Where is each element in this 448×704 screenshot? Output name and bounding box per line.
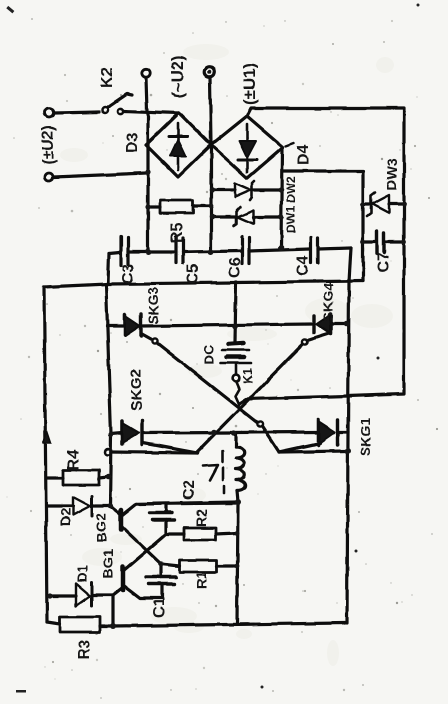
svg-text:SKG2: SKG2: [128, 369, 145, 410]
svg-text:D1: D1: [74, 565, 90, 583]
svg-text:C3: C3: [120, 263, 137, 284]
svg-text:C5: C5: [185, 263, 202, 284]
svg-text:D4: D4: [295, 144, 312, 165]
svg-text:DW3: DW3: [384, 159, 400, 190]
svg-text:C6: C6: [227, 257, 244, 278]
svg-text:DC: DC: [201, 345, 217, 365]
svg-text:C2: C2: [181, 479, 198, 500]
svg-text:K2: K2: [99, 67, 116, 88]
svg-text:SKG4: SKG4: [320, 283, 336, 321]
svg-text:SKG1: SKG1: [357, 418, 373, 456]
svg-text:D2: D2: [57, 508, 73, 526]
svg-text:R4: R4: [65, 449, 82, 470]
svg-text:C4: C4: [295, 255, 312, 276]
svg-text:R2: R2: [193, 509, 209, 527]
svg-text:SKG3: SKG3: [146, 287, 161, 324]
svg-text:R3: R3: [76, 639, 93, 660]
svg-text:K1: K1: [241, 368, 255, 384]
svg-text:(±U1): (±U1): [240, 63, 259, 105]
svg-text:(±U2): (±U2): [40, 125, 57, 165]
svg-text:R5: R5: [169, 222, 186, 243]
svg-text:(~U2): (~U2): [168, 55, 187, 98]
svg-text:DW1 DW2: DW1 DW2: [284, 176, 298, 233]
svg-text:C7: C7: [375, 251, 392, 272]
svg-text:BG1: BG1: [100, 549, 116, 578]
svg-text:C1: C1: [151, 597, 168, 618]
svg-text:D3: D3: [124, 132, 141, 153]
svg-text:R1: R1: [193, 571, 209, 589]
svg-text:BG2: BG2: [93, 513, 109, 542]
